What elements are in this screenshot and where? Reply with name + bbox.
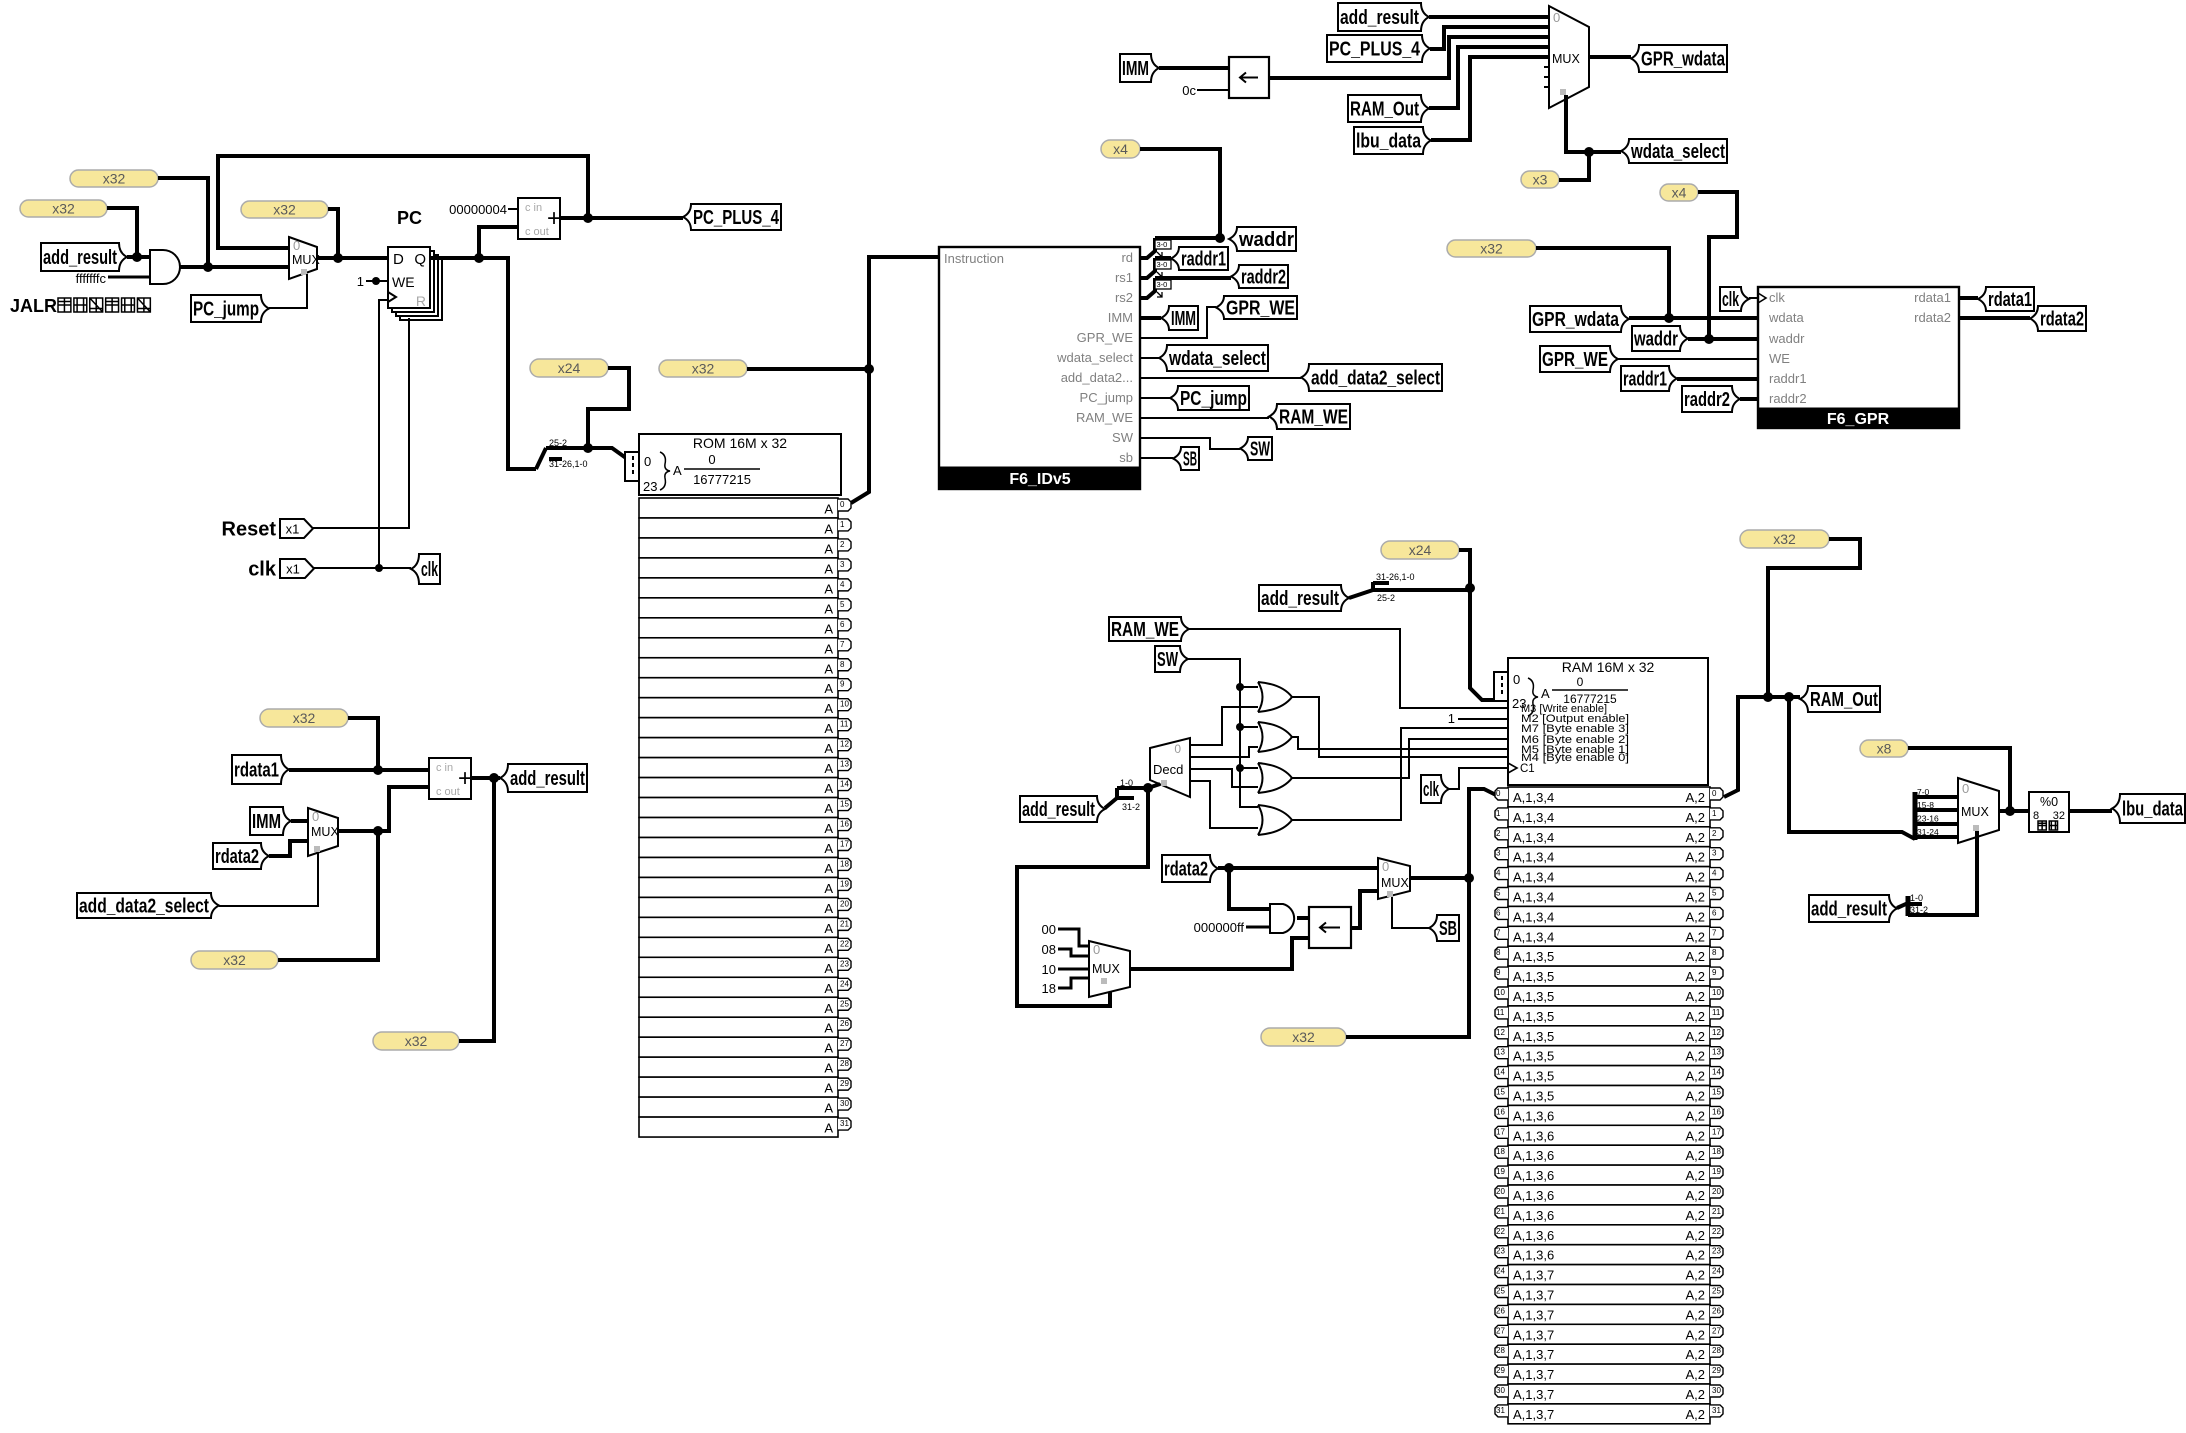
fan-in splitter at RAM address port bbox=[1494, 672, 1510, 701]
svg-text:A,2: A,2 bbox=[1685, 1327, 1705, 1342]
svg-text:3: 3 bbox=[840, 560, 845, 569]
svg-text:A: A bbox=[824, 1021, 833, 1036]
svg-text:31: 31 bbox=[1712, 1406, 1721, 1415]
wire rdata1 out bbox=[1959, 296, 1978, 300]
wire GPR_WE port to tunnel bbox=[1140, 307, 1216, 338]
wire Reset to PC R bbox=[313, 318, 409, 528]
svg-text:x32: x32 bbox=[223, 952, 246, 968]
net tag x32 (PC mux feedback) bbox=[70, 170, 158, 187]
svg-text:26: 26 bbox=[840, 1019, 849, 1028]
svg-text:A: A bbox=[824, 881, 833, 896]
wire AND output to MUX1 in1 bbox=[180, 262, 289, 272]
svg-text:25-2: 25-2 bbox=[1377, 593, 1395, 603]
fan-in splitter at ROM address port bbox=[625, 452, 641, 481]
svg-text:11: 11 bbox=[1712, 1008, 1721, 1017]
svg-text:31-2: 31-2 bbox=[1122, 802, 1140, 812]
svg-text:7: 7 bbox=[1712, 928, 1717, 937]
wire IMM port to tunnel bbox=[1140, 316, 1161, 320]
svg-text:A,1,3,4: A,1,3,4 bbox=[1513, 850, 1554, 865]
svg-text:A,1,3,6: A,1,3,6 bbox=[1513, 1208, 1554, 1223]
wire waddr to waddr port bbox=[1688, 337, 1758, 341]
wire MUX6 out to extender bbox=[1999, 806, 2029, 816]
wire x32 tag3 drop bbox=[328, 209, 338, 258]
svg-text:23: 23 bbox=[643, 479, 657, 494]
svg-text:wdata_select: wdata_select bbox=[1056, 350, 1133, 365]
wire add_data2_select to MUX3 select bbox=[219, 852, 318, 906]
wire x24 tag to RAM address net bbox=[1459, 550, 1470, 588]
svg-text:clk: clk bbox=[248, 559, 277, 581]
svg-text:22: 22 bbox=[1712, 1227, 1721, 1236]
svg-text:A,2: A,2 bbox=[1685, 1029, 1705, 1044]
svg-text:A: A bbox=[824, 641, 833, 656]
svg-text:A,2: A,2 bbox=[1685, 1188, 1705, 1203]
svg-text:rdata1: rdata1 bbox=[1914, 290, 1951, 305]
wire extender rs2 to raddr2 port bbox=[1140, 278, 1155, 298]
svg-text:A,1,3,5: A,1,3,5 bbox=[1513, 1029, 1554, 1044]
svg-text:add_result: add_result bbox=[1811, 899, 1887, 921]
wire rdata2 branch to AND2 in1 bbox=[1229, 868, 1270, 909]
svg-text:16: 16 bbox=[1496, 1107, 1505, 1116]
wire const 0c to shifter bbox=[1197, 89, 1229, 91]
svg-text:11: 11 bbox=[1496, 1008, 1505, 1017]
svg-text:A,1,3,4: A,1,3,4 bbox=[1513, 929, 1554, 944]
svg-text:A,1,3,5: A,1,3,5 bbox=[1513, 1089, 1554, 1104]
wire RAM address into fan-in bbox=[1465, 583, 1494, 700]
wire x8 tag to MUX6 out net bbox=[1908, 748, 2010, 811]
svg-text:A,2: A,2 bbox=[1685, 1268, 1705, 1283]
tunnel rdata2 (source, store byte) bbox=[1162, 855, 1218, 882]
tunnel GPR_wdata (source) bbox=[1530, 306, 1629, 332]
svg-text:19: 19 bbox=[1712, 1167, 1721, 1176]
wire SW port to tunnel bbox=[1140, 438, 1240, 449]
svg-text:A,1,3,6: A,1,3,6 bbox=[1513, 1148, 1554, 1163]
svg-text:27: 27 bbox=[840, 1039, 849, 1048]
svg-text:IMM: IMM bbox=[252, 811, 281, 833]
decoder Decd (byte lane decode) bbox=[1150, 738, 1190, 797]
svg-text:waddr: waddr bbox=[1238, 229, 1294, 251]
adder PC+4 bbox=[518, 198, 561, 239]
net tag x32 (GPR wdata) bbox=[1447, 240, 1536, 257]
svg-text:x32: x32 bbox=[293, 710, 316, 726]
svg-text:0: 0 bbox=[1174, 742, 1181, 756]
svg-text:D: D bbox=[393, 251, 404, 268]
svg-text:A: A bbox=[673, 463, 682, 478]
tunnel RAM_WE (source, RAM) bbox=[1109, 617, 1189, 641]
wire wdata_select port to tunnel bbox=[1140, 357, 1159, 359]
wire x32 tag to rdata1 net bbox=[348, 718, 378, 770]
svg-text:11: 11 bbox=[840, 720, 849, 729]
net tag x8 (selected byte) bbox=[1860, 740, 1908, 757]
svg-text:23: 23 bbox=[840, 959, 849, 968]
svg-text:raddr2: raddr2 bbox=[1769, 391, 1807, 406]
wire extender out to lbu_data bbox=[2069, 809, 2112, 813]
wire IMM to MUX3 in0 bbox=[291, 819, 308, 823]
tunnel lbu_data (dest) bbox=[2112, 794, 2185, 823]
wire SW to OR gates bbox=[1188, 659, 1258, 807]
tunnel raddr2 (dest) bbox=[1231, 265, 1288, 289]
svg-text:WE: WE bbox=[392, 274, 415, 290]
svg-text:c out: c out bbox=[525, 226, 549, 238]
wire const 10 to MUX4 in2 bbox=[1058, 968, 1089, 971]
svg-text:GPR_WE: GPR_WE bbox=[1226, 298, 1295, 320]
svg-text:A,2: A,2 bbox=[1685, 1069, 1705, 1084]
svg-text:14: 14 bbox=[840, 780, 849, 789]
block F6_IDv5 (instruction decoder) bbox=[939, 247, 1140, 489]
svg-text:16777215: 16777215 bbox=[693, 472, 751, 487]
svg-text:x32: x32 bbox=[692, 361, 715, 377]
splitter add_result (1-0 / 31-2) bbox=[1105, 778, 1148, 812]
svg-text:A: A bbox=[824, 921, 833, 936]
svg-text:30: 30 bbox=[1712, 1386, 1721, 1395]
tunnel GPR_WE (source) bbox=[1540, 346, 1618, 372]
tunnel GPR_wdata (dest) bbox=[1631, 45, 1727, 72]
svg-text:24: 24 bbox=[840, 979, 849, 988]
svg-text:A: A bbox=[824, 661, 833, 676]
svg-text:A,2: A,2 bbox=[1685, 810, 1705, 825]
wire Decd out3 to OR4 in2 bbox=[1190, 781, 1258, 828]
svg-text:13: 13 bbox=[1496, 1048, 1505, 1057]
svg-text:9: 9 bbox=[1496, 968, 1501, 977]
svg-text:IMM: IMM bbox=[1122, 58, 1149, 80]
svg-text:A: A bbox=[824, 1041, 833, 1056]
svg-text:4: 4 bbox=[1712, 869, 1717, 878]
svg-text:clk: clk bbox=[1423, 779, 1439, 801]
svg-text:raddr2: raddr2 bbox=[1684, 389, 1730, 411]
tunnel SB (dest) bbox=[1173, 447, 1199, 471]
svg-text:A,2: A,2 bbox=[1685, 1009, 1705, 1024]
svg-text:0: 0 bbox=[1496, 789, 1501, 798]
wire MUX1 output to PC D input bbox=[317, 253, 388, 263]
wire rdata2 to MUX3 in1 bbox=[269, 841, 308, 856]
svg-text:RAM_Out: RAM_Out bbox=[1810, 689, 1878, 711]
svg-text:2: 2 bbox=[1496, 829, 1501, 838]
svg-text:A,2: A,2 bbox=[1685, 1367, 1705, 1382]
svg-text:A,2: A,2 bbox=[1685, 1407, 1705, 1422]
wire extender rd to waddr port bbox=[1140, 238, 1155, 258]
net tag x24 (ROM address) bbox=[530, 359, 608, 377]
block F6_GPR (register file) bbox=[1758, 287, 1959, 428]
svg-text:8: 8 bbox=[1496, 948, 1501, 957]
wire raddr1 to raddr1 port bbox=[1677, 377, 1758, 381]
svg-text:A: A bbox=[824, 801, 833, 816]
net tag x4 (waddr) bbox=[1101, 140, 1140, 158]
zero extender 8 to 32 bbox=[2029, 792, 2069, 832]
wire extender rs1 to raddr1 port bbox=[1140, 258, 1155, 278]
svg-text:0: 0 bbox=[840, 500, 845, 509]
mux MUX6 (lbu byte select) bbox=[1958, 778, 1999, 843]
svg-text:22: 22 bbox=[840, 939, 849, 948]
svg-text:F6_GPR: F6_GPR bbox=[1827, 411, 1890, 428]
svg-text:A,1,3,6: A,1,3,6 bbox=[1513, 1128, 1554, 1143]
svg-text:A,2: A,2 bbox=[1685, 1089, 1705, 1104]
svg-text:MUX: MUX bbox=[311, 825, 339, 839]
svg-text:A: A bbox=[824, 761, 833, 776]
svg-text:M4 [Byte enable 0]: M4 [Byte enable 0] bbox=[1521, 752, 1629, 764]
svg-text:PC_PLUS_4: PC_PLUS_4 bbox=[693, 207, 780, 229]
svg-text:A,1,3,5: A,1,3,5 bbox=[1513, 969, 1554, 984]
input pin Reset bbox=[222, 519, 313, 541]
svg-text:A,2: A,2 bbox=[1685, 1347, 1705, 1362]
svg-text:A,2: A,2 bbox=[1685, 790, 1705, 805]
svg-text:A,2: A,2 bbox=[1685, 870, 1705, 885]
wire MUX5 out to RAM data in bbox=[1410, 789, 1496, 883]
svg-text:rdata2: rdata2 bbox=[1164, 859, 1208, 881]
svg-text:RAM 16M x 32: RAM 16M x 32 bbox=[1562, 659, 1655, 675]
svg-text:SB: SB bbox=[1183, 449, 1197, 471]
svg-text:raddr2: raddr2 bbox=[1241, 267, 1286, 289]
wire add_data2_select port to tunnel bbox=[1140, 377, 1301, 379]
svg-text:10: 10 bbox=[840, 700, 849, 709]
svg-text:27: 27 bbox=[1496, 1326, 1505, 1335]
net tag x32 (RAM write data) bbox=[1261, 1028, 1346, 1046]
wire const 08 to MUX4 in1 bbox=[1058, 949, 1089, 956]
svg-text:7: 7 bbox=[1496, 928, 1501, 937]
svg-text:sb: sb bbox=[1119, 450, 1133, 465]
svg-text:21: 21 bbox=[1712, 1207, 1721, 1216]
wire byte offset to MUX6 select bbox=[1908, 831, 1977, 915]
wire const 18 to MUX4 in3 bbox=[1058, 978, 1089, 988]
wire x32 tag1 to AND output net bbox=[158, 178, 208, 267]
svg-text:A: A bbox=[824, 561, 833, 576]
tunnel raddr1 (source) bbox=[1621, 366, 1677, 391]
svg-text:+: + bbox=[547, 205, 561, 232]
svg-text:A,1,3,4: A,1,3,4 bbox=[1513, 870, 1554, 885]
wire byte offset to Decd select bbox=[1148, 784, 1160, 788]
wire SW branch OR2 bbox=[1240, 726, 1258, 728]
svg-text:0: 0 bbox=[1553, 10, 1560, 25]
svg-text:A: A bbox=[1541, 686, 1550, 701]
wire x32 tag to instruction net bbox=[747, 364, 874, 374]
tunnel clk (source, GPR) bbox=[1720, 287, 1749, 311]
or gate OR2 (byte en 1) bbox=[1258, 722, 1292, 752]
svg-text:24: 24 bbox=[1496, 1267, 1505, 1276]
shifter IMM << 12 bbox=[1229, 57, 1269, 98]
svg-text:13: 13 bbox=[840, 760, 849, 769]
svg-text:A: A bbox=[824, 941, 833, 956]
svg-text:GPR_wdata: GPR_wdata bbox=[1532, 309, 1620, 331]
wire PC_jump to MUX1 select bbox=[269, 274, 307, 308]
svg-text:15: 15 bbox=[1496, 1088, 1505, 1097]
svg-text:add_result: add_result bbox=[43, 247, 117, 269]
svg-text:MUX: MUX bbox=[1092, 962, 1120, 976]
wire x32 tag to MUX3 out net bbox=[278, 831, 378, 960]
svg-text:31-26,1-0: 31-26,1-0 bbox=[549, 459, 588, 469]
wire OR4 out to RAM M7 bbox=[1292, 728, 1509, 820]
svg-text:15: 15 bbox=[840, 800, 849, 809]
svg-text:x8: x8 bbox=[1877, 741, 1892, 757]
svg-text:A: A bbox=[824, 521, 833, 536]
svg-text:16: 16 bbox=[1712, 1107, 1721, 1116]
wire rdata2 out bbox=[1959, 316, 2030, 320]
svg-text:SW: SW bbox=[1112, 430, 1134, 445]
svg-text:A: A bbox=[824, 581, 833, 596]
tunnel clk (source, RAM) bbox=[1421, 775, 1449, 803]
svg-text:0c: 0c bbox=[1182, 83, 1196, 98]
svg-text:SB: SB bbox=[1439, 918, 1457, 940]
wire PC_PLUS_4 to MUX2 in1 bbox=[1430, 27, 1549, 49]
wire MUX2 select to wdata_select bbox=[1566, 95, 1621, 157]
svg-text:A: A bbox=[824, 741, 833, 756]
svg-text:29: 29 bbox=[1712, 1366, 1721, 1375]
svg-text:RAM_WE: RAM_WE bbox=[1279, 407, 1348, 429]
svg-text:A: A bbox=[824, 721, 833, 736]
memory ROM rows (32 words) bbox=[639, 498, 851, 1137]
svg-text:8: 8 bbox=[1712, 948, 1717, 957]
svg-text:6: 6 bbox=[1496, 908, 1501, 917]
svg-text:PC_jump: PC_jump bbox=[193, 299, 259, 321]
svg-text:29: 29 bbox=[840, 1079, 849, 1088]
svg-text:A: A bbox=[824, 701, 833, 716]
svg-text:1: 1 bbox=[1496, 809, 1501, 818]
tunnel add_data2_select (source) bbox=[77, 893, 219, 918]
svg-text:5: 5 bbox=[840, 600, 845, 609]
wire clk up to PC clock triangle bbox=[379, 300, 388, 568]
svg-text:19: 19 bbox=[1496, 1167, 1505, 1176]
svg-text:08: 08 bbox=[1042, 942, 1056, 957]
tunnel add_result (source, PC) bbox=[41, 243, 127, 271]
svg-text:A,1,3,7: A,1,3,7 bbox=[1513, 1327, 1554, 1342]
svg-text:x32: x32 bbox=[103, 171, 126, 187]
svg-text:x32: x32 bbox=[1480, 241, 1503, 257]
svg-text:12: 12 bbox=[840, 740, 849, 749]
svg-text:raddr1: raddr1 bbox=[1181, 249, 1226, 271]
svg-text:raddr1: raddr1 bbox=[1769, 371, 1807, 386]
wire x32 tag to GPR wdata net bbox=[1536, 248, 1674, 323]
svg-text:23: 23 bbox=[1712, 1247, 1721, 1256]
tunnel RAM_Out (dest) bbox=[1800, 686, 1880, 712]
tunnel add_result (source, byte decode) bbox=[1020, 796, 1105, 822]
svg-text:A: A bbox=[824, 841, 833, 856]
wire PC_PLUS_4 feedback loop to MUX1 in0 bbox=[218, 156, 588, 248]
wire clk pin to clk tunnel and PC clock bbox=[314, 564, 411, 572]
svg-text:x1: x1 bbox=[286, 562, 300, 577]
tunnel RAM_WE (dest) bbox=[1269, 404, 1350, 429]
wire shifter2 out to MUX5 in1 bbox=[1351, 891, 1378, 928]
or gate OR4 (byte en 3) bbox=[1258, 805, 1292, 835]
svg-text:6: 6 bbox=[1712, 908, 1717, 917]
svg-text:x32: x32 bbox=[1773, 531, 1796, 547]
svg-text:SW: SW bbox=[1250, 439, 1270, 461]
svg-text:A,2: A,2 bbox=[1685, 929, 1705, 944]
svg-text:+: + bbox=[458, 765, 472, 792]
svg-text:20: 20 bbox=[1496, 1187, 1505, 1196]
svg-text:MUX: MUX bbox=[292, 253, 320, 267]
svg-text:PC_jump: PC_jump bbox=[1080, 390, 1133, 405]
svg-text:PC_PLUS_4: PC_PLUS_4 bbox=[1329, 39, 1421, 61]
svg-text:21: 21 bbox=[1496, 1207, 1505, 1216]
svg-text:A,1,3,7: A,1,3,7 bbox=[1513, 1288, 1554, 1303]
svg-text:A: A bbox=[824, 901, 833, 916]
wire OR2 out to RAM M5 bbox=[1292, 737, 1509, 749]
svg-text:0: 0 bbox=[708, 452, 715, 467]
wire rdata2 to AND2 and MUX5 in0 bbox=[1218, 863, 1378, 873]
svg-text:rdata1: rdata1 bbox=[1988, 289, 2032, 311]
svg-text:A: A bbox=[824, 681, 833, 696]
svg-text:x32: x32 bbox=[405, 1033, 428, 1049]
svg-text:A,2: A,2 bbox=[1685, 949, 1705, 964]
svg-text:30: 30 bbox=[840, 1099, 849, 1108]
svg-text:31-24: 31-24 bbox=[1917, 827, 1939, 837]
svg-text:A,2: A,2 bbox=[1685, 1387, 1705, 1402]
svg-text:4: 4 bbox=[1496, 869, 1501, 878]
svg-text:MUX: MUX bbox=[1552, 52, 1580, 66]
svg-text:A,2: A,2 bbox=[1685, 890, 1705, 905]
svg-text:x24: x24 bbox=[558, 360, 581, 376]
tunnel wdata_select (dest) bbox=[1159, 345, 1268, 371]
wire clk to RAM C1 bbox=[1449, 768, 1509, 789]
constant 000000ff bbox=[1194, 920, 1245, 935]
svg-text:A: A bbox=[824, 1061, 833, 1076]
svg-text:MUX: MUX bbox=[1381, 876, 1409, 890]
wire x4 tag to waddr net bbox=[1140, 149, 1225, 243]
svg-text:26: 26 bbox=[1712, 1306, 1721, 1315]
svg-text:24: 24 bbox=[1712, 1267, 1721, 1276]
svg-text:add_result: add_result bbox=[1022, 799, 1095, 821]
splitter add_result RAM (31-26,1-0 / 25-2) bbox=[1349, 572, 1470, 603]
svg-text:add_data2_select: add_data2_select bbox=[1311, 368, 1440, 390]
svg-text:rdata2: rdata2 bbox=[2040, 309, 2084, 331]
svg-text:x32: x32 bbox=[273, 202, 296, 218]
svg-text:A,1,3,4: A,1,3,4 bbox=[1513, 890, 1554, 905]
svg-text:28: 28 bbox=[1712, 1346, 1721, 1355]
wire add_result to AND gate in1 bbox=[127, 252, 150, 262]
shifter byte position bbox=[1309, 907, 1351, 948]
svg-text:2: 2 bbox=[1712, 829, 1717, 838]
wire x24 tag to ROM address net bbox=[583, 368, 629, 453]
tunnel PC_PLUS_4 (source, wb mux) bbox=[1327, 35, 1430, 62]
constant 00000004 bbox=[449, 202, 507, 217]
net tag x32 (add_result bus) bbox=[20, 200, 107, 217]
svg-text:rd: rd bbox=[1121, 250, 1133, 265]
mux MUX4 (shift amount select) bbox=[1089, 941, 1130, 997]
svg-text:A,2: A,2 bbox=[1685, 830, 1705, 845]
svg-text:A: A bbox=[824, 781, 833, 796]
tunnel add_result (source, lbu select) bbox=[1809, 895, 1897, 922]
constant 0c (shift amount) bbox=[1182, 83, 1196, 98]
svg-text:26: 26 bbox=[1496, 1306, 1505, 1315]
svg-text:25: 25 bbox=[840, 999, 849, 1008]
label JALR note bbox=[10, 296, 150, 316]
svg-text:5: 5 bbox=[1712, 889, 1717, 898]
svg-text:add_result: add_result bbox=[1261, 588, 1339, 610]
svg-text:3: 3 bbox=[1496, 849, 1501, 858]
wire const1 to PC WE bbox=[366, 277, 388, 285]
svg-text:A,1,3,4: A,1,3,4 bbox=[1513, 909, 1554, 924]
tunnel GPR_WE (dest) bbox=[1216, 296, 1297, 320]
svg-text:A: A bbox=[824, 861, 833, 876]
tunnel waddr (source) bbox=[1632, 326, 1688, 351]
wire Decd out1 to OR2 in2 bbox=[1190, 747, 1258, 757]
svg-text:18: 18 bbox=[1496, 1147, 1505, 1156]
net tag x32 (add_result) bbox=[373, 1032, 459, 1050]
svg-text:A,2: A,2 bbox=[1685, 1168, 1705, 1183]
svg-text:A,1,3,6: A,1,3,6 bbox=[1513, 1228, 1554, 1243]
tunnel add_result (source, RAM addr) bbox=[1259, 585, 1349, 611]
svg-text:A,2: A,2 bbox=[1685, 1288, 1705, 1303]
svg-text:3-0: 3-0 bbox=[1157, 240, 1168, 249]
svg-text:IMM: IMM bbox=[1171, 308, 1196, 330]
svg-text:MUX: MUX bbox=[1961, 805, 1989, 819]
svg-text:SW: SW bbox=[1157, 649, 1178, 671]
svg-text:0: 0 bbox=[1962, 781, 1969, 796]
svg-text:5: 5 bbox=[1496, 889, 1501, 898]
svg-text:4: 4 bbox=[840, 580, 845, 589]
svg-text:17: 17 bbox=[840, 839, 849, 848]
svg-text:c in: c in bbox=[525, 202, 542, 214]
or gate OR1 (byte en 0) bbox=[1258, 682, 1292, 712]
svg-text:6: 6 bbox=[840, 620, 845, 629]
svg-text:A,1,3,6: A,1,3,6 bbox=[1513, 1168, 1554, 1183]
